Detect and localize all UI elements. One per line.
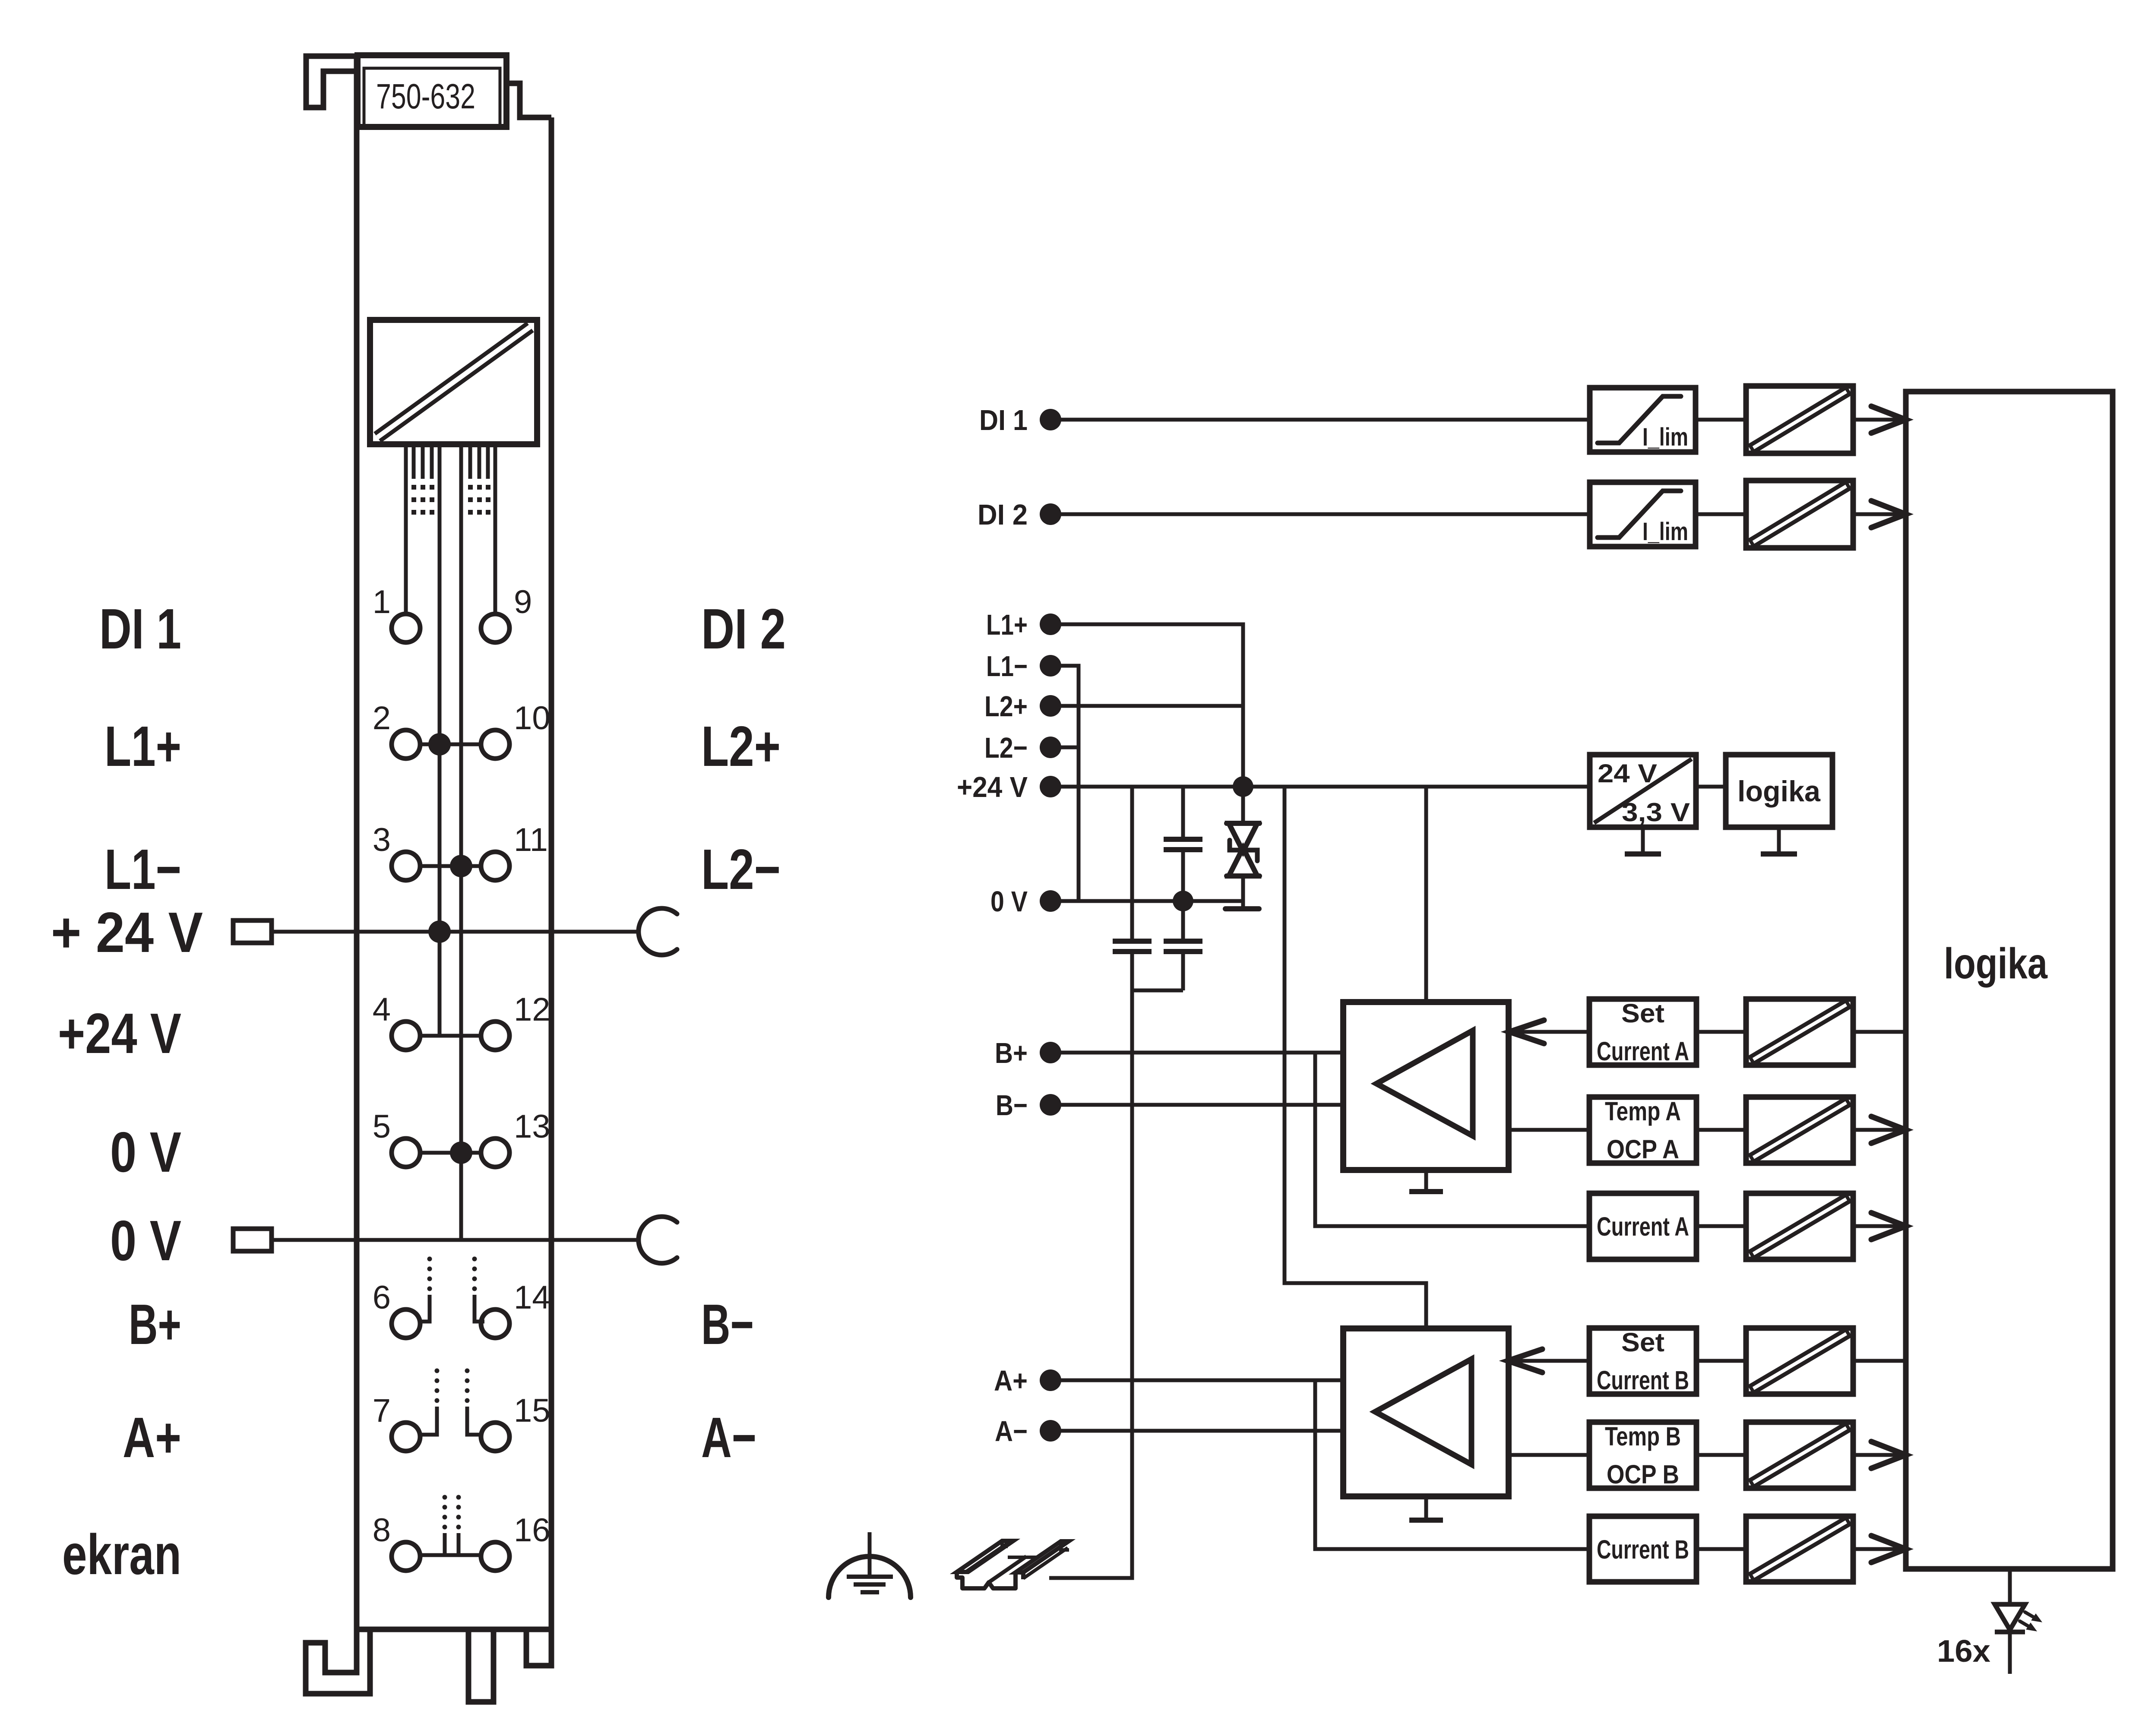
wire DI2 to I_lim B (1060, 512, 1590, 516)
svg-text:B+: B+ (129, 1293, 181, 1356)
module bottom-left mounting hook (306, 1629, 370, 1694)
chassis ground symbol (829, 1532, 911, 1597)
0V power jumper contact (639, 1217, 677, 1263)
terminal pin 4 (373, 991, 420, 1050)
svg-text:DI 1: DI 1 (99, 597, 181, 661)
svg-text:B−: B− (701, 1293, 754, 1356)
wire converter to logic supply (1696, 785, 1726, 789)
terminal pin 9 (481, 584, 532, 642)
+24V feed-through wire (272, 930, 639, 934)
node A+ (994, 1365, 1061, 1397)
label B+ (129, 1293, 181, 1356)
I_lim limiter block B (1590, 482, 1696, 547)
wire Set Current A to isolator (1696, 1030, 1746, 1034)
pin 8 - pin 16 shield link (420, 1495, 481, 1556)
node L2- (984, 732, 1061, 764)
label 0 V row5 (110, 1120, 181, 1184)
input filter block with isolation diagonal (370, 320, 537, 444)
label L2+ (701, 715, 781, 778)
node 0 V (990, 885, 1061, 918)
wire Set Current A to logika (1853, 1030, 1906, 1034)
wire to pin 1 (404, 444, 408, 614)
junction dot bus2/row3 (450, 855, 472, 877)
module bottom center foot (468, 1629, 494, 1702)
svg-text:16: 16 (514, 1512, 551, 1549)
svg-text:+24 V: +24 V (58, 1002, 181, 1065)
wire Current B to logika with arrow (1853, 1536, 1906, 1562)
svg-text:A+: A+ (994, 1365, 1028, 1397)
label L1+ (104, 715, 181, 778)
isolator Set Current B (1746, 1328, 1853, 1394)
amplifier B ground (1409, 1496, 1443, 1520)
svg-text:DI 2: DI 2 (978, 499, 1028, 531)
jumper pin5-pin13 (420, 1151, 481, 1155)
wire Set Current B left (1508, 1349, 1589, 1372)
svg-text:Set: Set (1621, 999, 1664, 1028)
svg-text:24 V: 24 V (1598, 759, 1657, 788)
wire Set Current B to isolator (1696, 1359, 1746, 1363)
svg-text:DI 1: DI 1 (979, 404, 1028, 436)
isolator Set Current A (1746, 999, 1853, 1065)
terminal pin 6 (373, 1279, 420, 1338)
node DI 1 (979, 404, 1061, 436)
svg-text:I_lim: I_lim (1642, 518, 1688, 546)
label A+ (123, 1406, 181, 1469)
node A- (995, 1415, 1061, 1448)
terminal pin 12 (481, 991, 551, 1050)
label + 24 V (51, 901, 203, 964)
isolator DI2 (1746, 481, 1853, 548)
svg-text:L1−: L1− (104, 838, 181, 901)
wire bundle dots (411, 485, 490, 515)
wire +24V supply to amplifier B (1285, 787, 1426, 1328)
wire Temp A / OCP A left (1509, 1128, 1589, 1132)
terminal pin 1 (373, 584, 420, 642)
24V/3.3V converter (1590, 755, 1696, 827)
terminal pin 15 (481, 1392, 551, 1451)
wire Temp B / OCP B to isolator (1696, 1453, 1746, 1457)
label +24 V (58, 1002, 181, 1065)
amplifier A ground (1409, 1170, 1443, 1192)
label DI 2 (701, 597, 786, 661)
terminal pin 8 (373, 1512, 420, 1571)
wire to pin 9 (494, 444, 497, 614)
block Set Current A (1589, 999, 1696, 1066)
status LED 16x (1937, 1569, 2042, 1674)
svg-text:2: 2 (373, 700, 391, 737)
label A&#8722; (701, 1406, 756, 1469)
node B- (996, 1089, 1061, 1122)
svg-text:8: 8 (373, 1512, 391, 1549)
svg-text:6: 6 (373, 1279, 391, 1316)
svg-text:0 V: 0 V (110, 1120, 181, 1184)
svg-text:A−: A− (995, 1415, 1028, 1448)
internal bus line 2 (459, 444, 463, 1240)
node L2+ (984, 690, 1061, 723)
svg-text:3,3 V: 3,3 V (1622, 798, 1690, 827)
svg-text:12: 12 (514, 991, 551, 1028)
svg-text:16x: 16x (1937, 1634, 1990, 1669)
junction dot bus1/row2 (428, 733, 451, 756)
wire I_lim A to isolator (1696, 418, 1746, 422)
node L1+ (986, 609, 1061, 641)
wire 0V rail (1060, 899, 1243, 903)
wire B+ current sense (1315, 1053, 1589, 1226)
svg-text:A+: A+ (123, 1406, 181, 1469)
svg-text:10: 10 (514, 700, 551, 737)
wire Set Current A left (1509, 1020, 1589, 1043)
terminal pin 3 (373, 822, 420, 880)
svg-text:+24 V: +24 V (957, 771, 1028, 803)
block Current B (1589, 1516, 1696, 1582)
wire A- to amplifier B (1060, 1429, 1343, 1433)
internal bus line 1 (438, 444, 442, 1036)
svg-text:0 V: 0 V (110, 1209, 181, 1272)
isolator Current A (1746, 1193, 1853, 1259)
svg-text:4: 4 (373, 991, 391, 1028)
wire I_lim B to isolator (1696, 512, 1746, 516)
block Temp A / OCP A (1589, 1097, 1696, 1164)
wire DI1 to I_lim A (1060, 418, 1590, 422)
wire +24V rail (1060, 785, 1590, 789)
svg-text:I_lim: I_lim (1642, 423, 1688, 451)
label B&#8722; (701, 1293, 754, 1356)
pin 15 contact hook (465, 1369, 481, 1435)
svg-text:1: 1 (373, 584, 391, 620)
wire A+ to amplifier B (1060, 1379, 1343, 1382)
capacitor +24V to earth (1049, 787, 1152, 1578)
module bottom right foot (526, 1629, 551, 1666)
svg-text:OCP B: OCP B (1607, 1460, 1679, 1489)
terminal pin 5 (373, 1108, 420, 1167)
wire B- to amplifier A (1060, 1103, 1344, 1107)
wire L1- (1060, 666, 1079, 901)
capacitor +24V to 0V (1164, 787, 1202, 901)
+24V power jumper contact (639, 908, 677, 955)
svg-text:B−: B− (996, 1089, 1028, 1122)
+24V field terminal tab (233, 920, 272, 943)
svg-text:L2−: L2− (984, 732, 1028, 764)
terminal pin 7 (373, 1392, 420, 1451)
svg-text:logika: logika (1737, 775, 1821, 808)
module label plate 750-632 (358, 55, 506, 127)
svg-text:14: 14 (514, 1279, 551, 1316)
svg-text:L1+: L1+ (986, 609, 1028, 641)
wire B+ to amplifier A (1060, 1051, 1344, 1055)
svg-text:3: 3 (373, 822, 391, 858)
wire L2+ (1060, 704, 1243, 708)
svg-text:13: 13 (514, 1108, 551, 1145)
svg-text:15: 15 (514, 1392, 551, 1429)
logic supply ground (1761, 827, 1797, 854)
0V feed-through wire (272, 1238, 639, 1242)
amplifier block A (outputs B+/B-) (1343, 1002, 1509, 1170)
svg-text:A−: A− (701, 1406, 756, 1469)
isolator DI1 (1746, 386, 1853, 453)
terminal pin 10 (481, 700, 551, 759)
svg-text:Current A: Current A (1597, 1212, 1689, 1241)
wire Temp B / OCP B to logika with arrow (1853, 1442, 1906, 1468)
0V field terminal tab (233, 1229, 272, 1251)
wire A+ current sense (1315, 1380, 1589, 1549)
amplifier block B (outputs A+/A-) (1343, 1328, 1509, 1496)
label DI 1 (99, 597, 181, 661)
label ekran (62, 1523, 181, 1586)
svg-text:DI 2: DI 2 (701, 597, 786, 661)
node L1- (986, 650, 1061, 683)
node +24 V (957, 771, 1061, 803)
junction dot bus1/+24V (428, 920, 451, 943)
svg-text:5: 5 (373, 1108, 391, 1145)
block Set Current B (1589, 1328, 1696, 1395)
terminal pin 11 (481, 822, 548, 880)
svg-text:7: 7 (373, 1392, 391, 1429)
suppressor diode TVS (1225, 787, 1259, 909)
junction dot bus2/row5 (450, 1142, 472, 1164)
converter ground (1625, 827, 1661, 854)
pin 7 contact hook (420, 1369, 440, 1435)
wire Temp A / OCP A to logika with arrow (1853, 1116, 1906, 1143)
svg-text:OCP A: OCP A (1607, 1135, 1679, 1164)
isolator Temp B / OCP B (1746, 1422, 1853, 1488)
K-bus I/O module 750-632 body outline (357, 56, 551, 1673)
wire Set Current B to logika (1853, 1359, 1906, 1363)
svg-text:11: 11 (514, 822, 548, 858)
jumper pin3-pin11 (420, 864, 481, 868)
svg-text:Set: Set (1621, 1328, 1664, 1357)
jumper pin2-pin10 (420, 743, 481, 746)
svg-text:750-632: 750-632 (376, 77, 475, 116)
node DI 2 (978, 499, 1061, 531)
svg-text:L1−: L1− (986, 650, 1028, 683)
svg-text:Current B: Current B (1597, 1535, 1689, 1564)
DIN rail symbol (957, 1541, 1069, 1588)
wire +24V supply to amplifier A (1424, 787, 1428, 1002)
block Current A (1589, 1193, 1696, 1259)
svg-text:Temp B: Temp B (1605, 1422, 1681, 1451)
pin 14 contact hook (472, 1257, 485, 1322)
svg-text:Current B: Current B (1597, 1366, 1689, 1395)
junction dot 0V/cap (1173, 891, 1193, 911)
node B+ (995, 1037, 1061, 1069)
wire Current A to logika with arrow (1853, 1213, 1906, 1240)
I_lim limiter block A (1590, 388, 1696, 452)
module top-right step notch (507, 83, 551, 117)
isolator Temp A / OCP A (1746, 1097, 1853, 1163)
wire L2- (1060, 746, 1079, 749)
terminal pin 13 (481, 1108, 551, 1167)
wire Current B to isolator (1696, 1547, 1746, 1551)
svg-text:B+: B+ (995, 1037, 1028, 1069)
wire Temp A / OCP A to isolator (1696, 1128, 1746, 1132)
block Temp B / OCP B (1589, 1422, 1696, 1489)
svg-text:+ 24 V: + 24 V (51, 901, 203, 964)
svg-text:L2+: L2+ (701, 715, 781, 778)
svg-text:Current A: Current A (1597, 1037, 1689, 1066)
wire L1+ (1060, 624, 1243, 787)
svg-text:L2+: L2+ (984, 690, 1028, 723)
svg-text:L1+: L1+ (104, 715, 181, 778)
svg-text:ekran: ekran (62, 1523, 181, 1586)
terminal pin 16 (481, 1512, 551, 1571)
wire Temp B / OCP B left (1508, 1453, 1589, 1457)
label L1&#8722; (104, 838, 181, 901)
wire+arrow DI2 into logika (1853, 501, 1906, 528)
wire Current A to isolator (1696, 1224, 1746, 1228)
module top-left mounting hook (306, 56, 357, 108)
pin 6 contact hook (420, 1257, 432, 1322)
label L2&#8722; (701, 838, 781, 901)
svg-text:0 V: 0 V (990, 885, 1028, 918)
svg-text:9: 9 (514, 584, 532, 620)
logika main block (1906, 392, 2113, 1569)
svg-text:logika: logika (1944, 939, 2048, 988)
logic supply block (1726, 755, 1832, 827)
junction dot +24V/TVS (1233, 776, 1253, 797)
svg-text:Temp A: Temp A (1605, 1097, 1681, 1126)
wire+arrow DI1 into logika (1853, 406, 1906, 433)
terminal pin 2 (373, 700, 420, 759)
label 0 V ext (110, 1209, 181, 1272)
capacitor 0V to earth (1132, 901, 1202, 990)
wire bundle stubs (414, 444, 488, 479)
svg-text:L2−: L2− (701, 838, 781, 901)
jumper pin4-pin12 (420, 1034, 481, 1038)
isolator Current B (1746, 1516, 1853, 1582)
terminal pin 14 (481, 1279, 551, 1338)
